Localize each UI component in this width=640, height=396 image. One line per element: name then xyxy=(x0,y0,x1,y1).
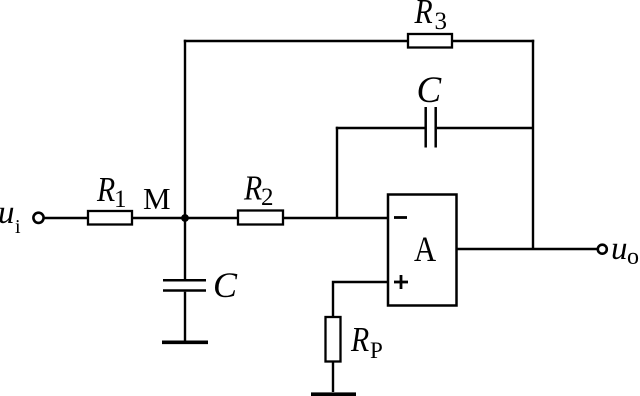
label R2 xyxy=(243,169,262,208)
wire: op-amp non-inverting input to RP xyxy=(333,282,388,316)
svg-text:R: R xyxy=(350,321,369,360)
wire: feedback capacitor right lead xyxy=(437,127,533,129)
svg-text:u: u xyxy=(611,231,628,267)
wire: node M to R2 xyxy=(186,217,238,219)
capacitor C (feedback) xyxy=(426,107,436,148)
svg-text:C: C xyxy=(417,70,443,111)
svg-text:C: C xyxy=(213,265,238,305)
wire: RP to ground xyxy=(332,361,334,392)
label R1 xyxy=(96,171,115,210)
ground (below capacitor C) xyxy=(162,340,208,344)
op-amp inverting input marker (-) xyxy=(394,216,407,219)
wire: capacitor C to ground xyxy=(184,292,186,341)
wire: R3 to right rail xyxy=(452,40,534,42)
op-amp non-inverting input marker (+) xyxy=(394,275,408,289)
wire: input terminal to R1 xyxy=(44,217,88,219)
wire: R1 to node M xyxy=(132,217,186,219)
wire: op-amp output xyxy=(457,248,598,250)
capacitor C (node M to ground) xyxy=(163,280,206,290)
resistor RP xyxy=(326,317,341,362)
svg-text:R: R xyxy=(96,171,115,210)
svg-text:2: 2 xyxy=(261,184,274,211)
wire: feedback capacitor left lead xyxy=(336,127,425,129)
wire: node M up to top rail xyxy=(184,40,186,219)
node M xyxy=(181,214,189,222)
svg-text:M: M xyxy=(143,181,171,216)
svg-text:o: o xyxy=(627,244,639,270)
op-amp A xyxy=(388,195,457,306)
svg-text:1: 1 xyxy=(114,186,127,213)
output terminal u_o xyxy=(598,245,607,254)
wire: inverting input node up to feedback capacitor xyxy=(336,127,338,218)
wire: R2 to op-amp inverting input xyxy=(283,217,388,219)
svg-text:R: R xyxy=(414,0,433,32)
svg-text:R: R xyxy=(243,169,262,208)
input terminal u_i xyxy=(33,213,43,223)
svg-text:3: 3 xyxy=(435,8,448,35)
label RP xyxy=(350,321,369,360)
svg-text:P: P xyxy=(370,338,383,363)
wire: right rail down to output xyxy=(532,40,534,249)
label R3 xyxy=(414,0,433,32)
resistor R2 xyxy=(238,211,283,225)
ground (below RP) xyxy=(311,392,356,396)
label u_o xyxy=(611,231,639,270)
label u_i xyxy=(0,195,21,238)
resistor R1 xyxy=(88,211,132,225)
label A xyxy=(414,230,436,270)
resistor R3 xyxy=(408,34,452,48)
wire: top rail to R3 xyxy=(184,40,408,42)
svg-text:A: A xyxy=(414,230,436,270)
wire: node M down to capacitor C xyxy=(184,218,186,280)
svg-text:i: i xyxy=(15,216,21,238)
svg-text:u: u xyxy=(0,195,15,231)
